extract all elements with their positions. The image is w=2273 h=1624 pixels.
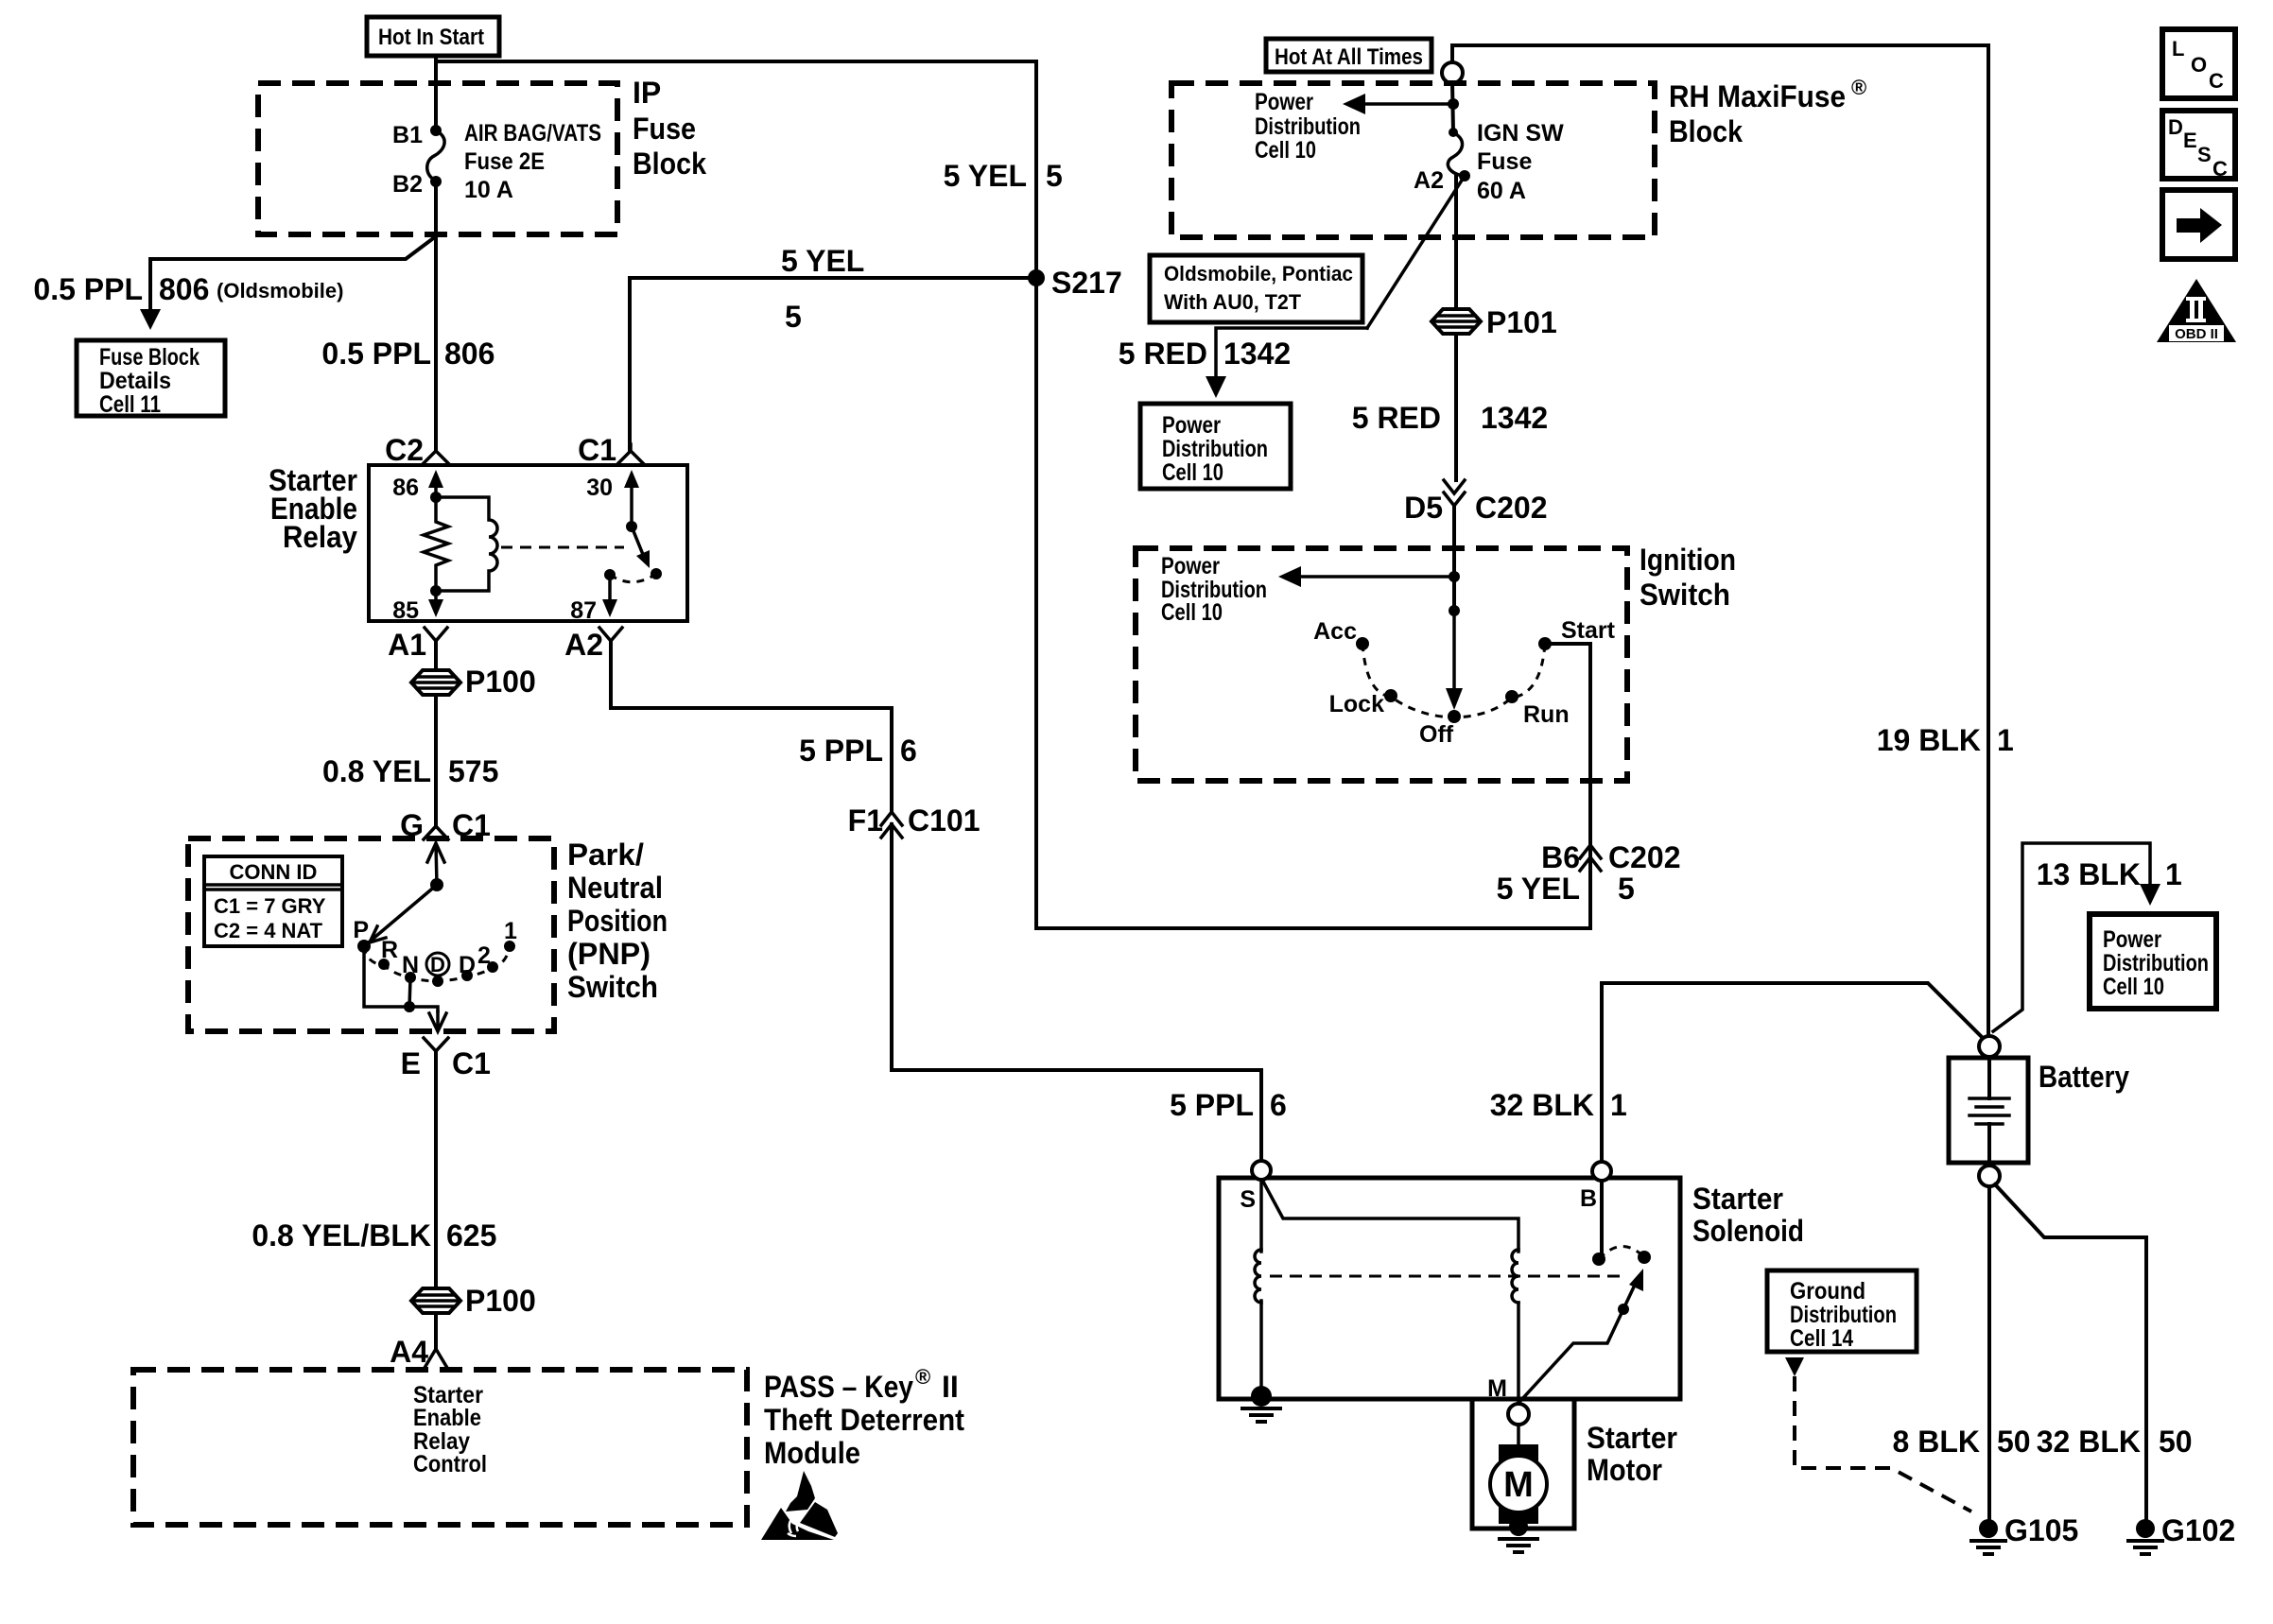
connector G C1: [400, 808, 491, 842]
relay switch arm: [632, 527, 650, 568]
svg-text:D5: D5: [1404, 491, 1443, 525]
svg-text:Lock: Lock: [1329, 691, 1384, 717]
svg-text:1: 1: [2165, 857, 2182, 891]
icon DESC box: [2162, 111, 2235, 181]
wire A1 to P100: [434, 641, 438, 670]
svg-text:6: 6: [1270, 1088, 1287, 1122]
solenoid ground symbol: [1242, 1408, 1280, 1422]
label Power Distribution Cell 10 in ignition switch: [1161, 553, 1267, 626]
PNP contact D drive circled: [426, 953, 449, 987]
motor ground junction: [1509, 1517, 1528, 1536]
svg-text:5 RED: 5 RED: [1352, 401, 1441, 435]
PNP contact D: [459, 952, 476, 981]
wire B down to contact: [1600, 1181, 1604, 1257]
svg-text:Park/: Park/: [567, 838, 644, 872]
PNP wire N drop: [404, 979, 415, 1012]
junction ignition branch: [1449, 571, 1460, 582]
RH MaxiFuse Block dashed box: [1171, 83, 1655, 237]
wire pull-in coil to M: [1517, 1303, 1520, 1404]
svg-text:13 BLK: 13 BLK: [2037, 857, 2141, 891]
svg-text:1342: 1342: [1223, 337, 1291, 371]
svg-text:IGN SW: IGN SW: [1477, 120, 1564, 147]
label RH MaxiFuse Block: [1669, 76, 1866, 148]
svg-text:C202: C202: [1608, 840, 1681, 874]
wire top bus 5 YEL from Hot In Start to S217 drop: [436, 61, 1036, 276]
svg-text:(PNP): (PNP): [567, 937, 651, 971]
svg-text:Relay: Relay: [283, 520, 357, 554]
PNP wire P to output: [364, 946, 438, 1011]
svg-text:Starter: Starter: [1587, 1421, 1677, 1455]
label Starter Solenoid: [1692, 1182, 1804, 1248]
ignition dashed position arc: [1362, 644, 1545, 717]
arrow to power distribution left: [1343, 94, 1453, 114]
svg-text:Power: Power: [1162, 412, 1221, 439]
wire label 0.8 YEL 575: [322, 754, 498, 788]
wire label 5 RED 1342 branch: [1119, 337, 1291, 371]
svg-text:Starter: Starter: [1692, 1182, 1783, 1216]
relay coil: [436, 497, 497, 591]
svg-text:Motor: Motor: [1587, 1453, 1662, 1487]
header box Hot In Start: [367, 17, 499, 56]
svg-text:0.5 PPL: 0.5 PPL: [321, 337, 431, 371]
ESD warning symbol: [761, 1471, 838, 1540]
label Starter Enable Relay Control: [413, 1382, 487, 1477]
wire from S217 branch down to relay C1: [628, 278, 632, 451]
svg-text:PASS – Key: PASS – Key: [764, 1370, 913, 1404]
connector P101: [1431, 305, 1557, 339]
svg-text:1: 1: [504, 918, 517, 944]
PNP contact 1: [504, 918, 517, 952]
svg-text:C: C: [2209, 69, 2224, 93]
svg-text:Hot At All Times: Hot At All Times: [1275, 44, 1423, 70]
wire fuse down through P101 to D5: [1454, 176, 1458, 480]
wire 32 BLK solenoid B to battery: [1602, 983, 1983, 1162]
svg-text:Ignition: Ignition: [1640, 543, 1736, 577]
svg-text:M: M: [1503, 1465, 1534, 1505]
svg-text:D: D: [430, 953, 445, 976]
svg-text:30: 30: [586, 475, 613, 501]
relay coil junction top: [430, 492, 442, 503]
box Ground Distribution Cell 14: [1767, 1270, 1917, 1352]
svg-text:Power: Power: [2103, 926, 2161, 953]
svg-text:1: 1: [1610, 1088, 1627, 1122]
wire label 13 BLK 1: [2037, 857, 2182, 891]
svg-text:5: 5: [785, 300, 802, 334]
connector A4: [390, 1335, 447, 1369]
icon arrow box: [2162, 190, 2235, 259]
svg-text:Block: Block: [633, 147, 706, 181]
ground distribution leader arrow: [1785, 1357, 1804, 1376]
relay contact NO: [651, 568, 662, 579]
ignition contact Acc: [1313, 618, 1369, 650]
fuse IGN SW 60A top node: [1449, 128, 1458, 137]
PASS-Key module dashed box: [133, 1370, 747, 1525]
svg-text:Fuse 2E: Fuse 2E: [464, 148, 545, 175]
svg-text:Module: Module: [764, 1436, 860, 1470]
svg-text:Hot In Start: Hot In Start: [378, 25, 484, 50]
box Fuse Block Details Cell 11: [77, 340, 225, 418]
connector C1: [578, 433, 644, 467]
svg-text:Cell 10: Cell 10: [1162, 459, 1223, 486]
svg-text:Solenoid: Solenoid: [1692, 1214, 1804, 1248]
connector D5 C202: [1404, 480, 1547, 525]
svg-text:32 BLK: 32 BLK: [1490, 1088, 1594, 1122]
wire label 0.5 PPL 806 (Oldsmobile): [33, 272, 343, 306]
svg-text:Cell 10: Cell 10: [1255, 137, 1316, 164]
svg-text:Details: Details: [99, 368, 171, 394]
pull-in coil: [1512, 1250, 1518, 1303]
svg-text:Control: Control: [413, 1451, 487, 1477]
svg-text:B: B: [1580, 1185, 1597, 1212]
wire label 5 RED 1342 main: [1352, 401, 1548, 435]
label Ignition Switch: [1640, 543, 1736, 612]
label Starter Enable Relay: [269, 463, 357, 554]
svg-text:OBD II: OBD II: [2175, 326, 2218, 342]
PNP output arrow down to E: [429, 1011, 446, 1031]
svg-text:P101: P101: [1486, 305, 1557, 339]
wire label 5 YEL 5 top: [944, 159, 1063, 193]
svg-text:806: 806: [444, 337, 495, 371]
svg-text:II: II: [942, 1370, 959, 1404]
PNP Switch dashed box: [188, 838, 554, 1031]
svg-text:S: S: [1240, 1186, 1256, 1213]
terminal ring at RH MaxiFuse feed: [1442, 62, 1463, 83]
svg-text:32 BLK: 32 BLK: [2037, 1425, 2141, 1459]
battery positive ring: [1979, 1036, 2000, 1057]
CONN ID box: [204, 856, 342, 946]
node S217: [1028, 266, 1122, 300]
header box Hot At All Times: [1266, 39, 1431, 72]
connector P100: [411, 665, 536, 699]
svg-text:RH MaxiFuse: RH MaxiFuse: [1669, 79, 1846, 113]
svg-text:C1 = 7 GRY: C1 = 7 GRY: [214, 894, 326, 918]
relay box Starter Enable Relay: [369, 465, 687, 621]
ground distribution dashed leader: [1795, 1376, 1971, 1512]
label Power Distribution Cell 10 in maxifuse block: [1255, 89, 1361, 164]
svg-text:50: 50: [1997, 1425, 2031, 1459]
box Oldsmobile Pontiac With AU0 T2T: [1150, 255, 1362, 322]
svg-text:P100: P100: [465, 1284, 536, 1318]
wire S to hold-in coil and ground: [1259, 1180, 1263, 1396]
svg-text:Power: Power: [1255, 89, 1313, 115]
svg-text:(Oldsmobile): (Oldsmobile): [217, 279, 343, 302]
svg-text:5 RED: 5 RED: [1119, 337, 1207, 371]
svg-text:625: 625: [446, 1218, 496, 1253]
IP Fuse Block dashed box: [258, 83, 617, 234]
wire label 5 YEL over branch: [781, 244, 864, 334]
svg-text:Distribution: Distribution: [2103, 950, 2209, 976]
ignition contact Run: [1505, 690, 1570, 728]
svg-text:8 BLK: 8 BLK: [1893, 1425, 1980, 1459]
hold-in coil: [1255, 1250, 1261, 1303]
ignition contact Lock: [1329, 689, 1397, 717]
svg-text:Theft Deterrent: Theft Deterrent: [764, 1403, 964, 1437]
svg-text:G102: G102: [2161, 1513, 2235, 1547]
solenoid contact dashed arc: [1599, 1246, 1644, 1259]
svg-text:Fuse: Fuse: [1477, 148, 1532, 175]
label PASS-Key II Theft Deterrent Module: [764, 1365, 964, 1470]
wire M ring to motor: [1517, 1425, 1520, 1448]
relay resistor: [424, 497, 448, 591]
svg-text:5 YEL: 5 YEL: [781, 244, 864, 278]
icon OBD II triangle: [2157, 279, 2236, 342]
wire E to P100: [434, 1051, 438, 1288]
svg-text:Cell 10: Cell 10: [1161, 599, 1223, 626]
wire label 5 YEL 5 at B6: [1497, 872, 1635, 906]
PNP wiper arrow up to G: [427, 843, 444, 885]
svg-text:50: 50: [2159, 1425, 2193, 1459]
PNP wiper arm to P: [370, 885, 437, 942]
arrow to power distribution ignition: [1278, 566, 1454, 587]
svg-text:Distribution: Distribution: [1255, 113, 1361, 140]
wire label 32 BLK 50: [2037, 1425, 2193, 1459]
svg-text:F1: F1: [848, 803, 883, 838]
svg-text:1342: 1342: [1481, 401, 1548, 435]
svg-text:C2 = 4 NAT: C2 = 4 NAT: [214, 919, 323, 942]
wire label 19 BLK 1: [1877, 723, 2014, 757]
svg-text:N: N: [402, 952, 419, 978]
ground G105: [1971, 1513, 2078, 1554]
svg-text:B1: B1: [392, 122, 423, 148]
svg-text:Cell 10: Cell 10: [2103, 974, 2164, 1000]
battery box: [1949, 1058, 2028, 1163]
relay contact dashed arc: [610, 574, 656, 582]
ignition contact Off: [1419, 710, 1461, 748]
svg-text:Battery: Battery: [2039, 1060, 2129, 1094]
starter solenoid box: [1219, 1178, 1680, 1399]
wire battery negative branch to G102: [1995, 1184, 2146, 1519]
svg-text:Acc: Acc: [1313, 618, 1357, 645]
svg-text:A2: A2: [1414, 167, 1444, 194]
svg-text:C1: C1: [452, 1046, 491, 1080]
wire 5 RED branch: [1216, 328, 1367, 377]
svg-text:Ground: Ground: [1790, 1278, 1865, 1304]
box Power Distribution Cell 10 right: [2090, 914, 2216, 1009]
motor ground symbol: [1500, 1539, 1537, 1552]
battery cell symbol: [1969, 1058, 2009, 1163]
battery negative ring: [1979, 1166, 2000, 1186]
svg-text:S: S: [2197, 143, 2212, 166]
svg-text:E: E: [2183, 129, 2197, 152]
label Park/Neutral Position (PNP) Switch: [567, 838, 668, 1004]
svg-text:575: 575: [448, 754, 498, 788]
svg-text:Neutral: Neutral: [567, 871, 663, 905]
fuse AIR BAG/VATS 2E: [427, 120, 601, 203]
PNP contact P: [353, 917, 371, 953]
diagonal tap from A2 to 5 RED branch: [1367, 176, 1465, 328]
svg-text:A2: A2: [564, 628, 603, 662]
svg-text:C: C: [2212, 157, 2228, 181]
relay switch pivot: [626, 521, 637, 532]
svg-text:With AU0, T2T: With AU0, T2T: [1164, 290, 1302, 314]
PNP wiper pivot: [430, 878, 443, 891]
node A2 maxifuse: [1414, 167, 1470, 194]
svg-text:Switch: Switch: [567, 970, 658, 1004]
PNP dashed position arc: [364, 946, 510, 981]
svg-text:60 A: 60 A: [1477, 178, 1526, 204]
label Battery: [2039, 1060, 2129, 1094]
wire S217 branch to relay C1: [630, 276, 1036, 280]
svg-text:Enable: Enable: [413, 1405, 481, 1431]
svg-text:®: ®: [1851, 76, 1866, 99]
starter motor box: [1472, 1399, 1574, 1529]
terminal B ring: [1580, 1162, 1611, 1212]
svg-text:85: 85: [392, 597, 419, 624]
Ignition Switch dashed box: [1136, 548, 1627, 781]
svg-text:Distribution: Distribution: [1162, 436, 1268, 462]
relay coil junction bottom: [430, 585, 442, 596]
box Power Distribution Cell 10 mid: [1140, 404, 1291, 489]
fuse IGN SW 60A: [1448, 120, 1564, 204]
svg-text:C1: C1: [578, 433, 616, 467]
svg-text:5 YEL: 5 YEL: [944, 159, 1027, 193]
solenoid ground junction: [1251, 1386, 1272, 1407]
ignition wiper arrow down to Off: [1446, 611, 1463, 710]
svg-text:AIR BAG/VATS: AIR BAG/VATS: [464, 120, 601, 147]
wire label 32 BLK 1: [1490, 1088, 1627, 1122]
svg-text:CONN ID: CONN ID: [230, 860, 318, 884]
wire P100 to G: [434, 695, 438, 826]
relay contact 87: [604, 569, 616, 580]
svg-text:P100: P100: [465, 665, 536, 699]
svg-text:C101: C101: [908, 803, 980, 838]
svg-text:6: 6: [900, 734, 917, 768]
connector C2: [385, 433, 449, 467]
svg-text:5 YEL: 5 YEL: [1497, 872, 1580, 906]
relay pin 87: [570, 575, 617, 624]
svg-text:Run: Run: [1523, 701, 1570, 728]
wire A2 relay to F1: [611, 641, 892, 813]
wire P100 to A4: [434, 1313, 438, 1349]
terminal M ring: [1508, 1404, 1529, 1425]
terminal S ring: [1240, 1161, 1271, 1213]
svg-text:5 PPL: 5 PPL: [1170, 1088, 1254, 1122]
connector E C1: [401, 1038, 491, 1080]
wire tap to fuse block details: [150, 236, 436, 315]
wire B2 down to relay C2: [434, 181, 438, 451]
solenoid switch arm from M: [1520, 1269, 1643, 1401]
svg-text:S217: S217: [1051, 266, 1122, 300]
wire Start branch down to B6: [1545, 644, 1590, 928]
solenoid contact B: [1592, 1253, 1605, 1266]
wire top bus 19 BLK to battery: [1452, 45, 1988, 1036]
svg-text:R: R: [381, 937, 398, 963]
wire label 8 BLK 50: [1893, 1425, 2031, 1459]
svg-text:A1: A1: [388, 628, 426, 662]
wire label 5 PPL 6 upper: [799, 734, 917, 768]
svg-text:1: 1: [1997, 723, 2014, 757]
svg-text:E: E: [401, 1046, 421, 1080]
svg-text:Off: Off: [1419, 721, 1454, 748]
svg-text:Cell 11: Cell 11: [99, 391, 161, 418]
svg-text:5: 5: [1618, 872, 1635, 906]
svg-text:Block: Block: [1669, 114, 1743, 148]
ground G102: [2128, 1513, 2235, 1554]
svg-text:O: O: [2191, 53, 2207, 77]
connector F1 C101: [848, 803, 980, 838]
svg-text:2: 2: [477, 942, 491, 969]
ignition contact Start: [1538, 617, 1616, 650]
svg-text:Fuse Block: Fuse Block: [99, 344, 200, 371]
connector A1: [388, 628, 447, 662]
svg-text:86: 86: [392, 475, 419, 501]
node B1: [392, 122, 442, 148]
connector A2: [564, 628, 622, 662]
wire battery negative to G105: [1987, 1186, 1991, 1519]
svg-text:0.8 YEL/BLK: 0.8 YEL/BLK: [252, 1218, 431, 1253]
solenoid dashed actuator link: [1270, 1275, 1623, 1278]
svg-text:5 PPL: 5 PPL: [799, 734, 883, 768]
svg-text:87: 87: [570, 597, 597, 624]
svg-text:19 BLK: 19 BLK: [1877, 723, 1981, 757]
label IP Fuse Block: [633, 76, 706, 181]
icon LOC box: [2162, 29, 2235, 98]
relay pin 85: [392, 591, 443, 624]
wire D5 into ignition switch: [1452, 506, 1456, 611]
svg-text:0.8 YEL: 0.8 YEL: [322, 754, 431, 788]
svg-text:Switch: Switch: [1640, 578, 1730, 612]
arrowhead down to Fuse Block Details: [140, 309, 161, 330]
svg-text:Distribution: Distribution: [1790, 1302, 1897, 1328]
svg-text:B6: B6: [1541, 840, 1580, 874]
PNP contact R: [378, 937, 398, 970]
connector B6 C202: [1541, 840, 1680, 874]
wire S217 down and across to B6: [1036, 278, 1590, 928]
svg-text:®: ®: [915, 1365, 930, 1389]
node B2: [392, 171, 442, 198]
svg-text:A4: A4: [390, 1335, 428, 1369]
wire F1 down to starter solenoid S: [892, 824, 1261, 1161]
relay pin 30: [586, 470, 639, 527]
svg-text:0.5 PPL: 0.5 PPL: [33, 272, 143, 306]
wire label 0.5 PPL 806: [321, 337, 495, 371]
wire S branch to pull-in coil: [1263, 1182, 1518, 1252]
wire label 5 PPL 6 lower: [1170, 1088, 1287, 1122]
junction at power distribution branch: [1448, 98, 1459, 110]
PNP contact N: [402, 952, 419, 983]
svg-text:806: 806: [159, 272, 209, 306]
svg-text:Power: Power: [1161, 553, 1220, 579]
svg-text:Position: Position: [567, 904, 668, 938]
wire from Hot In Start down to fuse B1: [434, 56, 438, 129]
solenoid switch arm pivot: [1618, 1304, 1629, 1315]
junction ignition lower: [1449, 605, 1460, 616]
svg-text:L: L: [2172, 37, 2184, 60]
connector P100 second: [411, 1284, 536, 1318]
PNP contact 2: [477, 942, 498, 973]
svg-text:Oldsmobile, Pontiac: Oldsmobile, Pontiac: [1164, 262, 1353, 285]
wire 13 BLK branch: [1993, 843, 2150, 1031]
svg-text:D: D: [459, 952, 476, 978]
svg-text:C202: C202: [1475, 491, 1548, 525]
svg-text:C2: C2: [385, 433, 424, 467]
label Starter Motor: [1587, 1421, 1677, 1487]
svg-text:5: 5: [1046, 159, 1063, 193]
relay pin 86: [392, 470, 443, 501]
svg-text:D: D: [2168, 115, 2183, 139]
arrowhead into Power Distribution: [1206, 376, 1226, 398]
starter motor symbol: [1490, 1444, 1547, 1524]
svg-text:IP: IP: [633, 76, 661, 110]
wire circle to fuse: [1452, 83, 1453, 131]
arrowhead into Power Distribution right: [2140, 884, 2160, 906]
label M terminal: [1487, 1375, 1507, 1402]
svg-text:B2: B2: [392, 171, 423, 198]
relay dashed actuator link: [501, 546, 624, 549]
svg-text:G105: G105: [2004, 1513, 2078, 1547]
svg-text:10 A: 10 A: [464, 177, 513, 203]
svg-text:Start: Start: [1561, 617, 1616, 644]
